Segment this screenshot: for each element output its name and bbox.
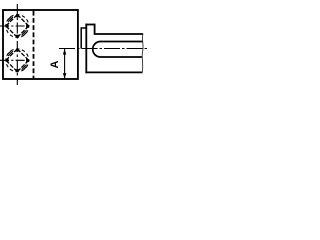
ball B1 diamond [6, 15, 29, 38]
ball B1 arrow S [15, 35, 19, 39]
slot (rounded end) [93, 42, 143, 58]
shoulder top edge [81, 27, 86, 29]
shaft top edge [94, 33, 143, 35]
shaft centerline [59, 48, 147, 50]
housing outline [3, 10, 78, 79]
shoulder left edge [80, 27, 82, 48]
ball B1 hatch NW [8, 17, 13, 22]
vertical centerline [16, 4, 18, 85]
shaft bottom edge [85, 71, 142, 73]
dimension A line [64, 49, 66, 79]
dimension A arrow up [63, 49, 66, 55]
ball B1 circle [6, 15, 29, 38]
ball B2 arrow W [5, 58, 9, 62]
ball B2 hatch SE [22, 65, 27, 70]
collar left edge [85, 24, 87, 74]
ball B1 arrow W [5, 24, 9, 28]
ball B1 arrow E [26, 24, 30, 28]
svg-text:A: A [49, 60, 61, 68]
ball B1 hatch SE [22, 30, 27, 35]
collar right edge [94, 24, 96, 34]
ball B2 hatch NW [8, 51, 13, 56]
collar top edge [85, 24, 94, 26]
ball B1 horizontal centerline [0, 25, 30, 27]
ball B2 arrow S [15, 69, 19, 73]
ball B2 arrow E [26, 58, 30, 62]
dimension A arrow down [63, 73, 66, 79]
hidden edge (dashed line) [33, 11, 35, 79]
ball B2 arrow N [15, 48, 19, 52]
break line (wavy) [141, 34, 144, 74]
ball B2 circle [6, 49, 29, 72]
ball B2 horizontal centerline [0, 59, 30, 61]
background [0, 0, 149, 88]
ball B1 arrow N [15, 13, 19, 17]
ball B2 diamond [6, 49, 29, 72]
